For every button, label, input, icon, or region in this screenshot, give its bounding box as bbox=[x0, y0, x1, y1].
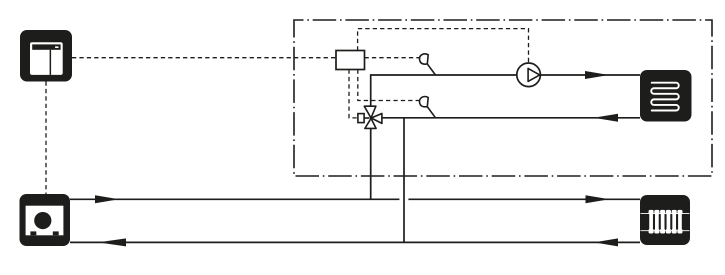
temperature sensor: return line bbox=[419, 97, 435, 118]
wire: control module to supply sensor (dashed) bbox=[365, 57, 420, 59]
display/control unit icon bbox=[20, 30, 72, 82]
heat pump icon bbox=[20, 194, 71, 246]
climate system 2 coil icon bbox=[640, 70, 692, 122]
system boundary (dash-dot frame) bbox=[294, 20, 712, 176]
flow arrow: return left (near heat pump) bbox=[98, 238, 126, 246]
control module bbox=[336, 51, 365, 70]
pipe: return branch from coil return to heating return bbox=[403, 118, 405, 243]
temperature sensor: supply line bbox=[419, 54, 435, 75]
flow arrow: coil supply (near coil) bbox=[585, 71, 609, 79]
mixing valve with actuator bbox=[358, 106, 382, 128]
flow arrow: coil return (near coil) bbox=[594, 114, 619, 122]
wire: control module to valve actuator (dashed) bbox=[349, 70, 358, 118]
pipe: mixed supply to climate system 2 coil bbox=[371, 75, 640, 106]
pipe: heating supply, heat pump to radiator (with crossing gap) bbox=[70, 198, 640, 200]
pipe: heating return, radiator to heat pump bbox=[70, 241, 640, 243]
pipe: return from climate system 2 coil to valve bbox=[382, 117, 640, 119]
pipe: valve bottom port to supply line bbox=[370, 128, 372, 199]
wire: control module to circulation pump (dashed) bbox=[358, 29, 529, 63]
wire: control module to return sensor (dashed) bbox=[358, 70, 420, 101]
wire: display unit to heat pump (dashed) bbox=[45, 82, 47, 195]
circulation pump bbox=[517, 63, 541, 87]
flow arrow: return right (near radiator) bbox=[594, 238, 618, 246]
flow arrow: supply left (near heat pump) bbox=[95, 195, 119, 203]
flow arrow: supply right (near radiator) bbox=[586, 195, 610, 203]
wire: display unit to control module (dashed) bbox=[72, 57, 336, 59]
radiator icon bbox=[640, 195, 690, 245]
